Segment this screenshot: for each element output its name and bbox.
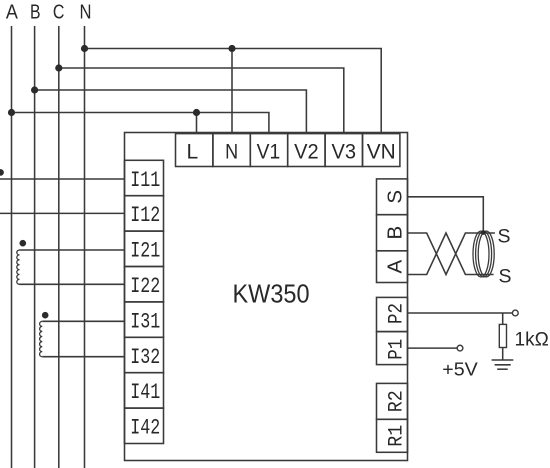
svg-text:A: A [384,259,407,273]
svg-text:1kΩ: 1kΩ [515,329,549,350]
svg-text:P2: P2 [386,303,409,324]
svg-text:KW350: KW350 [233,278,310,308]
svg-text:B: B [30,2,41,24]
svg-text:L: L [186,140,198,163]
svg-text:S: S [499,266,512,288]
svg-text:I32: I32 [130,345,160,370]
svg-text:P1: P1 [386,339,409,360]
svg-text:VN: VN [367,140,396,163]
svg-text:A: A [6,2,19,24]
svg-text:I22: I22 [130,274,160,299]
svg-text:V2: V2 [294,140,319,163]
svg-text:I41: I41 [130,380,160,405]
svg-text:S: S [384,190,407,204]
svg-text:V1: V1 [257,140,281,163]
svg-text:B: B [384,226,407,240]
svg-text:+5V: +5V [442,359,478,380]
svg-text:N: N [80,2,92,24]
svg-text:C: C [53,2,65,24]
svg-text:N: N [225,140,238,163]
svg-text:I11: I11 [130,168,160,193]
svg-text:R2: R2 [386,390,409,412]
svg-text:I21: I21 [130,239,160,264]
svg-text:S: S [498,226,511,248]
svg-text:V3: V3 [332,140,357,163]
svg-text:R1: R1 [386,425,409,447]
svg-text:I31: I31 [130,309,160,334]
svg-text:I12: I12 [130,203,160,228]
svg-text:I42: I42 [130,416,160,441]
